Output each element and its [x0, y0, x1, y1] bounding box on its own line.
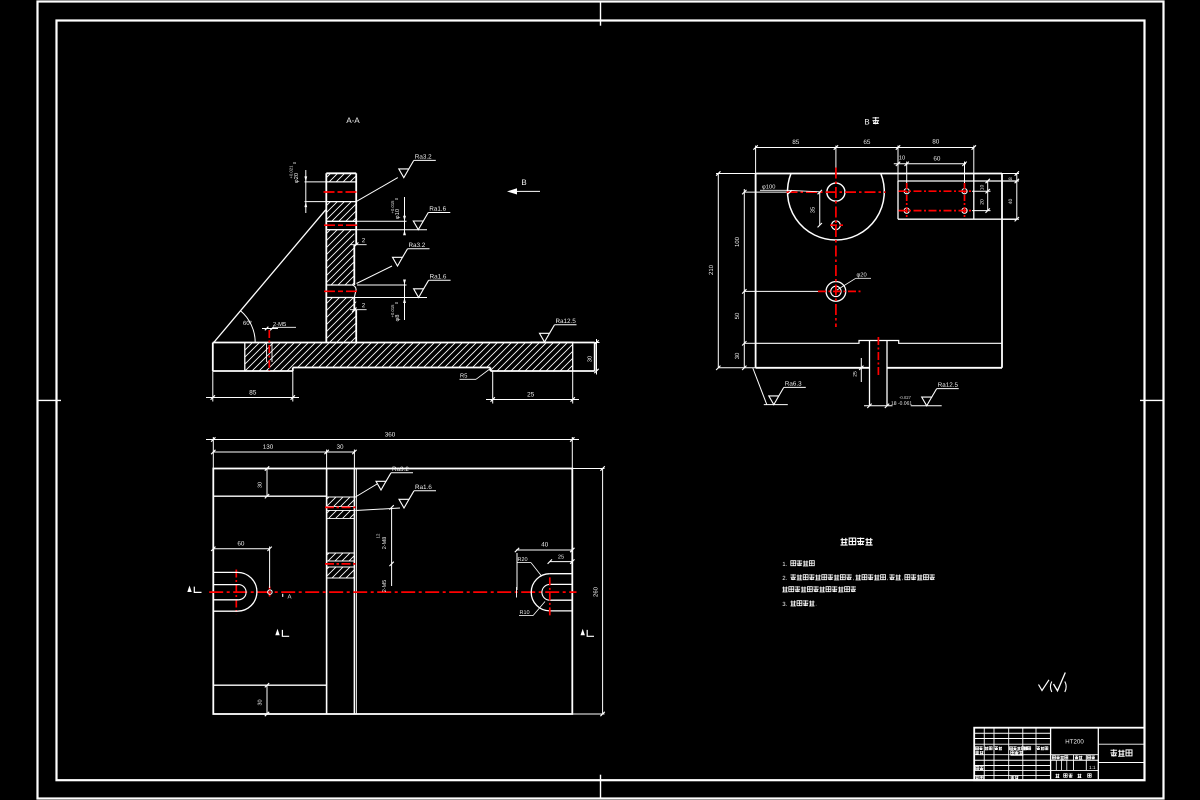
dimension 25 slot depth — [860, 358, 862, 382]
A-A rib diagonal — [214, 210, 326, 343]
B view counterbore inner circle — [831, 286, 841, 296]
B view big arc phi100 boss — [788, 174, 885, 240]
plan left notch outer arc R20 — [238, 572, 257, 611]
roughness Ra3.2 hole C counterbore — [357, 266, 393, 284]
plan right slot inner — [550, 583, 573, 585]
A-A base section boundary right — [572, 343, 574, 372]
label A-A — [346, 117, 359, 123]
A-A hole B top edge — [326, 220, 356, 222]
dimension 2 upper step — [354, 243, 358, 247]
plan view outline — [213, 469, 572, 715]
technical requirements line 3 — [782, 587, 787, 592]
dimension phi20 +0.021 — [305, 181, 327, 183]
plan hatch band 3 — [327, 553, 354, 561]
plan right slot centerline — [549, 577, 551, 615]
A-A hole A top edge — [326, 181, 356, 183]
A-A step line upper — [350, 244, 367, 246]
title block material HT200 — [1066, 739, 1084, 743]
dimension 260 right side — [572, 468, 604, 470]
section arrow A right — [581, 629, 585, 635]
centering tick top — [600, 2, 602, 26]
B view hole A centerline — [787, 191, 886, 193]
A-A hole C top edge — [326, 284, 351, 286]
dimension 30 base height — [595, 342, 600, 344]
label B direction — [865, 119, 869, 125]
plan hatch band 2 — [327, 510, 354, 518]
plan left notch outer slot — [213, 571, 237, 573]
A-A M5 hole outline — [266, 343, 268, 363]
callout 2-M8 — [391, 507, 393, 564]
B view pad holes centerline row 2 — [899, 210, 972, 212]
label R10 — [520, 610, 529, 614]
roughness Ra12.5 base top — [531, 341, 574, 343]
callout 2-M5 — [391, 564, 393, 586]
A-A hole C bottom edge — [326, 297, 354, 299]
title block right rows — [1098, 743, 1144, 745]
view direction arrow B — [509, 190, 540, 192]
roughness Ra3.2 strip — [355, 484, 377, 498]
plan right slot outer — [550, 573, 573, 575]
A-A column hatch upper — [326, 202, 356, 222]
roughness Ra1.6 hole B — [413, 221, 423, 230]
plan view lower ledge line — [213, 684, 326, 686]
technical requirements line 2 — [783, 576, 787, 580]
plan M8 centerline — [325, 506, 358, 508]
A-A column hatch middle — [326, 230, 354, 285]
A-A column outline — [326, 173, 356, 342]
title block left grid rows — [974, 733, 1050, 775]
dimension 130 30 top — [326, 450, 328, 469]
title block header micro text — [976, 747, 979, 750]
B view slot centerline — [877, 337, 879, 376]
dimension 10 20 pad right — [972, 190, 991, 192]
section arrow A mid — [282, 594, 284, 597]
B view hole A circle phi20 — [827, 183, 845, 201]
angle 60 degrees — [241, 311, 256, 343]
dimension 360 overall — [212, 437, 214, 469]
title block row labels — [975, 751, 979, 755]
B view pad hole 2 — [962, 189, 967, 194]
A-A hole A bottom edge — [326, 201, 356, 203]
dimension 8 40 far right — [1002, 173, 1019, 175]
dimension 30 lower left — [266, 685, 268, 714]
dimension row 85 65 80 — [755, 146, 757, 174]
dimension 60 notch — [269, 547, 271, 589]
roughness Ra1.6 strip — [356, 508, 401, 511]
B view pad holes centerline col 1 — [906, 183, 908, 219]
plan datum point circle — [268, 590, 273, 595]
plan M5 centerline — [325, 563, 358, 565]
plan datum cross right — [516, 587, 518, 598]
B view base top line with boss — [756, 341, 1002, 344]
A-A step line lower — [350, 309, 367, 311]
B view pad outline — [898, 180, 1017, 182]
roughness Ra6.3 bottom left — [753, 368, 767, 405]
label R20 — [518, 557, 527, 561]
dimension 10 60 pad holes — [906, 162, 908, 184]
B view counterbore outer circle — [826, 282, 846, 302]
B view hole B circle phi10 — [832, 221, 841, 230]
B view radius tick — [788, 190, 792, 194]
plan main horizontal centerline — [209, 591, 576, 593]
title block outer frame — [974, 728, 1144, 781]
plan view rib strip left edge — [326, 469, 328, 715]
dimension 2 lower step — [352, 308, 356, 312]
dimension 35 hole spacing — [819, 192, 821, 225]
A-A hole B bottom edge — [326, 229, 356, 231]
A-A M5 hole centerline — [268, 330, 270, 371]
dimension chain 100 50 30 left — [743, 189, 745, 368]
B view pad hole 3 — [904, 208, 909, 213]
A-A hole A centerline — [324, 191, 360, 193]
plan right slot outer arc — [531, 574, 550, 611]
roughness Ra12.5 bottom right — [911, 405, 942, 407]
technical requirements line 4 — [783, 602, 787, 606]
centering tick left — [38, 399, 62, 401]
section arrow A left — [187, 586, 191, 593]
section arrow A lower — [275, 629, 279, 635]
dimension 2-M5 — [262, 328, 278, 330]
B view vertical centerline — [835, 168, 837, 328]
centering tick right — [1140, 399, 1164, 401]
roughness Ra1.6 hole C — [414, 289, 424, 298]
dimension 40 right slot — [516, 553, 518, 590]
plan right slot inner arc — [542, 584, 550, 600]
A-A base section boundary left — [244, 343, 246, 372]
technical requirements title — [841, 538, 848, 545]
plan left notch inner arc — [239, 585, 247, 600]
label phi100 — [762, 184, 775, 189]
label R5 fillet — [460, 374, 467, 378]
A-A hole C centerline — [324, 290, 360, 292]
title block part name — [1111, 749, 1118, 756]
plan view rib strip right edge — [353, 469, 355, 715]
B view pad hole 1 — [904, 189, 909, 194]
plan hatch band 1 — [327, 497, 354, 506]
title block center grid — [1051, 754, 1099, 756]
title block center labels — [1052, 756, 1055, 759]
dimension phi8 hole C — [357, 284, 407, 286]
A-A column hatch lower — [326, 298, 356, 343]
B view pad hole 4 — [962, 208, 967, 213]
B view counterbore centerline — [818, 290, 862, 292]
title block sheet count row — [1056, 774, 1060, 778]
general roughness checkmark — [1039, 680, 1050, 691]
dimension 25 right slot — [550, 561, 573, 563]
label phi20 counterbore — [837, 278, 856, 290]
B view outline — [756, 174, 1002, 368]
plan band edges — [327, 497, 354, 578]
plan hatch band 4 — [327, 567, 354, 578]
dimension 85 base left — [212, 371, 214, 402]
A-A base outline — [213, 343, 595, 372]
A-A column cap hatch — [326, 173, 356, 182]
title block left grid columns — [984, 728, 1036, 781]
dimension phi10 +0.015 — [356, 220, 406, 222]
dimension 25 base right — [492, 371, 494, 404]
B view pad holes centerline col 2 — [964, 183, 966, 219]
A-A hole C counterbore arc — [352, 285, 357, 298]
roughness Ra3.2 hole A — [356, 178, 398, 202]
plan view upper ledge line — [213, 495, 326, 497]
plan left notch centerline vertical — [235, 570, 237, 615]
A-A hole B centerline — [324, 224, 358, 226]
B view column slot — [869, 341, 871, 406]
dimension 30 upper left — [266, 469, 268, 497]
title block main verticals — [1050, 728, 1052, 781]
dimension 18 slot width — [867, 404, 871, 408]
plan left notch inner slot — [213, 584, 238, 586]
plan datum point centerline — [269, 587, 271, 599]
technical requirements line 1 — [783, 562, 787, 566]
plan view rib fillet line — [355, 469, 357, 715]
B view hole B centerline — [830, 224, 843, 226]
B view pad holes centerline row 1 — [899, 190, 972, 192]
dimension 210 overall left — [716, 173, 756, 175]
A-A base hatch — [245, 343, 573, 372]
centering tick bottom — [600, 775, 602, 799]
